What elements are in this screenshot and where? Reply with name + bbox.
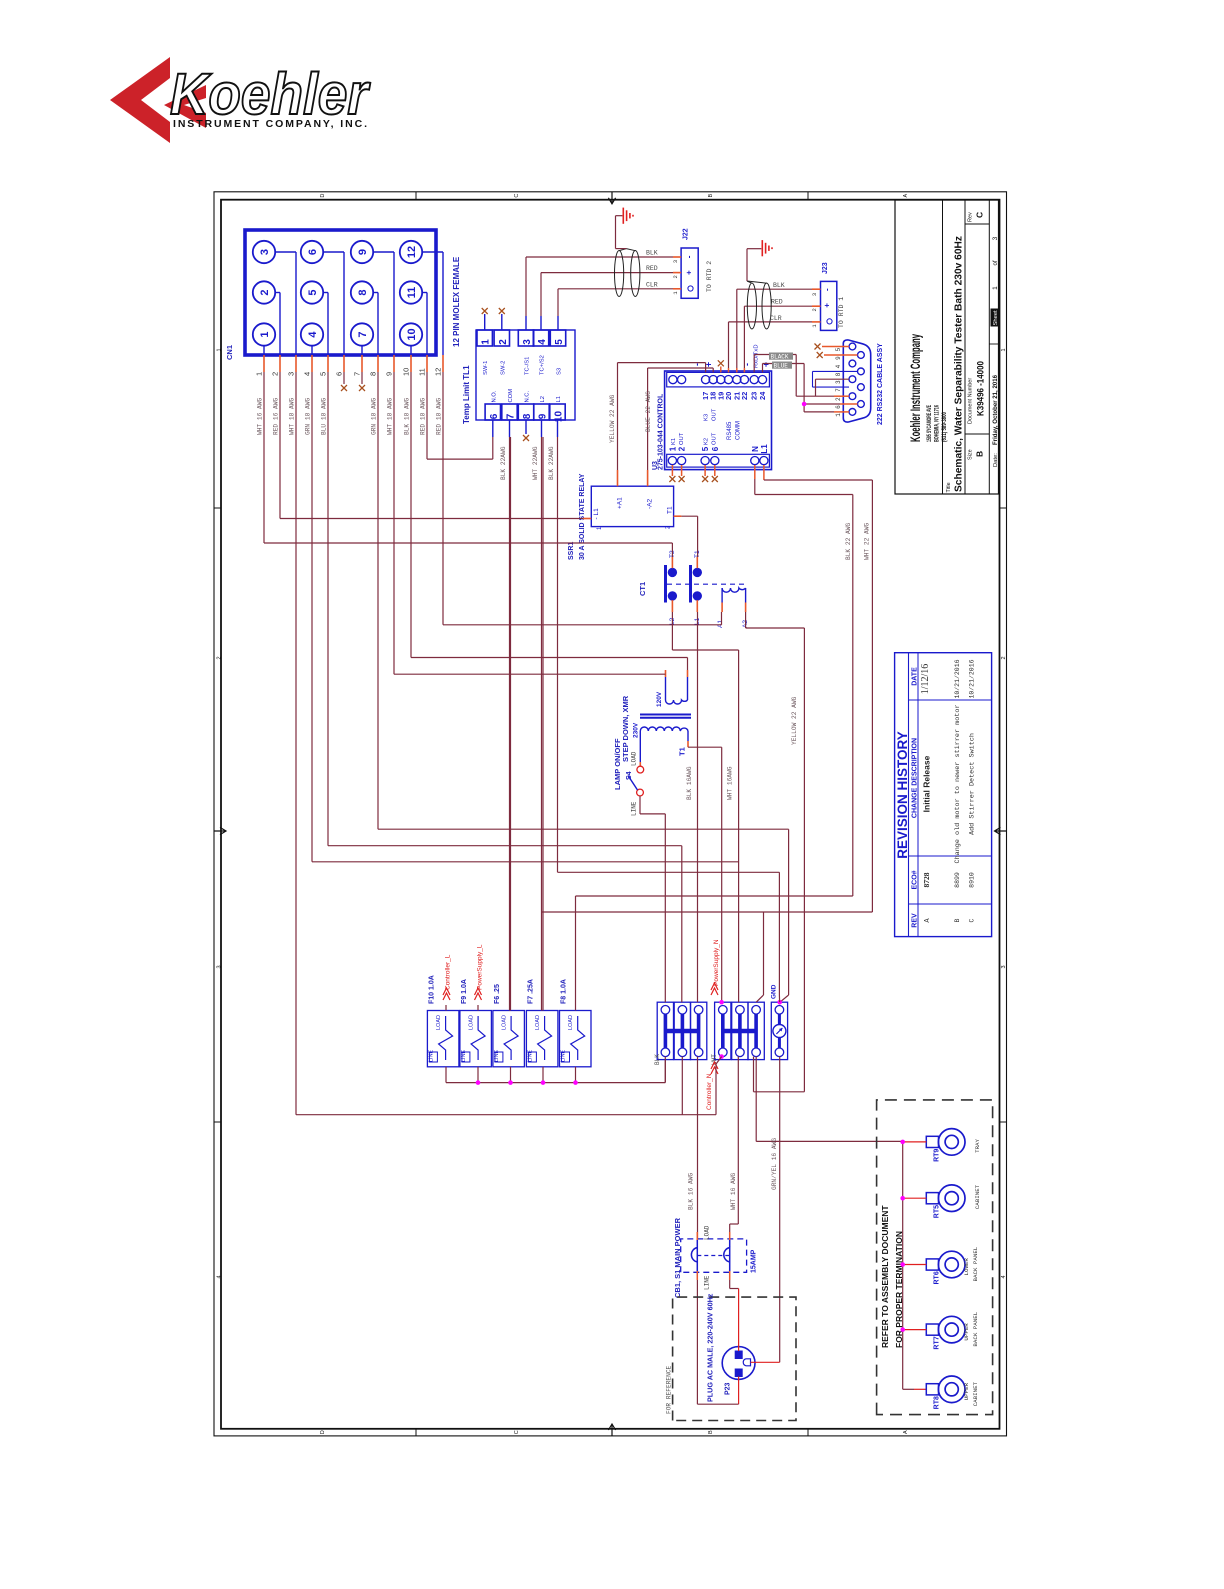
TL1 pin3 stub bbox=[525, 316, 527, 330]
GND terminal bottom long wire to plug ground bbox=[779, 1057, 781, 1363]
svg-text:10/21/2016: 10/21/2016 bbox=[954, 659, 961, 698]
svg-text:1/12/16: 1/12/16 bbox=[920, 664, 931, 695]
svg-text:YELLOW 22 AWG: YELLOW 22 AWG bbox=[609, 394, 616, 443]
svg-text:8: 8 bbox=[835, 372, 842, 376]
S4 LINE wire down bbox=[639, 796, 641, 814]
TL1 pin2 nc stub bbox=[501, 314, 503, 330]
fuse F10 outline bbox=[427, 1011, 459, 1067]
J22 cable shield ellipses bbox=[615, 251, 624, 297]
connector J22 outline bbox=[681, 248, 698, 298]
svg-text:C: C bbox=[975, 212, 985, 218]
svg-text:1: 1 bbox=[835, 413, 842, 417]
CN1 pin 5 circle bbox=[301, 281, 323, 303]
svg-text:RED: RED bbox=[771, 299, 783, 306]
U3 top pin 21 circle bbox=[733, 376, 741, 384]
svg-text:7: 7 bbox=[357, 331, 369, 337]
svg-text:CABINET: CABINET bbox=[972, 1381, 979, 1406]
svg-text:BACK PANEL: BACK PANEL bbox=[972, 1246, 979, 1281]
svg-text:F10 1.0A: F10 1.0A bbox=[428, 975, 435, 1004]
svg-text:12 PIN MOLEX FEMALE: 12 PIN MOLEX FEMALE bbox=[452, 256, 461, 347]
TL1 pin7 stub bbox=[509, 420, 511, 437]
J23 cable shield ellipses bbox=[747, 283, 756, 329]
svg-text:6: 6 bbox=[307, 249, 319, 255]
CN1 pin 3 circle bbox=[253, 241, 275, 263]
TL1 pin10 stub bbox=[557, 420, 559, 437]
svg-text:COM: COM bbox=[508, 389, 514, 403]
svg-text:C: C bbox=[514, 1430, 520, 1434]
U3 bottom pin 5 circle bbox=[701, 457, 709, 465]
wire CT1 A2 long wire down bbox=[745, 612, 747, 628]
U3 unused pin X marks bbox=[671, 465, 673, 476]
SSR1 +A1 stub bbox=[617, 470, 619, 486]
svg-text:Controller_N: Controller_N bbox=[706, 1073, 713, 1110]
DB9 pin9 nc stub bbox=[824, 354, 858, 356]
ring lug RT8 bbox=[938, 1376, 965, 1403]
svg-text:S3: S3 bbox=[557, 368, 563, 375]
wire U3 L1 right side down bbox=[763, 465, 765, 480]
DB9 loopback jumper blue bbox=[813, 370, 858, 372]
svg-text:10: 10 bbox=[554, 411, 565, 423]
wire CN1 pin9 to T1 primary left bbox=[393, 372, 395, 674]
TL1 pin 5 box bbox=[550, 330, 565, 346]
controller U3 outline bbox=[665, 371, 772, 470]
fuse bottom bus bbox=[445, 1067, 447, 1083]
CN1 pin 3 wire stub bbox=[295, 355, 297, 372]
CB1 breaker pole 1 bbox=[691, 1239, 697, 1272]
svg-text:BACK PANEL: BACK PANEL bbox=[972, 1311, 979, 1346]
svg-text:10: 10 bbox=[406, 328, 418, 340]
svg-text:12: 12 bbox=[434, 368, 443, 376]
svg-text:BLK 22AWG: BLK 22AWG bbox=[548, 446, 555, 480]
svg-text:F7 .25A: F7 .25A bbox=[527, 979, 534, 1004]
svg-text:9: 9 bbox=[538, 413, 549, 419]
terminal t2 bottom wire to neutral bus bbox=[681, 1057, 683, 1115]
svg-text:WHT 18 AWG: WHT 18 AWG bbox=[387, 398, 394, 435]
RS232 DB9 connector outline bbox=[843, 340, 870, 422]
svg-text:LOAD: LOAD bbox=[469, 1015, 475, 1030]
svg-text:YELLOW 22 AWG: YELLOW 22 AWG bbox=[791, 696, 798, 745]
RT9 wire bbox=[904, 1141, 926, 1143]
connector CN1 12-pin molex female outline bbox=[245, 230, 436, 355]
RT7 wire bbox=[904, 1329, 926, 1331]
DB9 loopback jumper maroon bbox=[816, 378, 850, 380]
svg-text:L2: L2 bbox=[540, 396, 546, 402]
J23 RED wire bbox=[744, 305, 812, 307]
svg-text:4: 4 bbox=[217, 1275, 223, 1278]
SSR1 L1 stub bbox=[583, 518, 591, 520]
T1 secondary right terminal bbox=[687, 731, 689, 741]
svg-text:3: 3 bbox=[259, 249, 271, 255]
wire pin8 GND vertical bbox=[788, 829, 790, 995]
DB9 pin 3 circle bbox=[849, 376, 856, 383]
U3 top pin 23 circle bbox=[750, 376, 758, 384]
svg-text:9: 9 bbox=[835, 356, 842, 360]
DB9 pin 8 circle bbox=[858, 368, 865, 375]
svg-text:RED: RED bbox=[646, 265, 658, 272]
svg-text:15AMP: 15AMP bbox=[751, 1249, 758, 1273]
svg-text:-: - bbox=[692, 363, 702, 366]
svg-text:-: - bbox=[742, 363, 752, 366]
junction dot fuse bus bbox=[476, 1080, 481, 1085]
svg-text:RED 18 AWG: RED 18 AWG bbox=[436, 398, 443, 435]
CN1 pin 7 wire stub bbox=[361, 355, 363, 372]
CN1 pin 1 wire stub bbox=[263, 355, 265, 372]
svg-text:2: 2 bbox=[271, 372, 280, 376]
TL1 pin 1 box bbox=[477, 330, 492, 346]
J23 CLR wire bbox=[729, 321, 813, 323]
J23 shield drain link bbox=[747, 281, 752, 283]
Koehler logo red chevron small bbox=[164, 85, 206, 128]
plug ground pin wire bbox=[749, 1361, 751, 1363]
svg-text:5: 5 bbox=[701, 446, 710, 451]
svg-text:A: A bbox=[903, 1430, 909, 1434]
plug bottom blade wire bbox=[738, 1377, 740, 1405]
TL1 pin9 stub bbox=[541, 420, 543, 437]
svg-text:Koehler Instrument Company: Koehler Instrument Company bbox=[907, 334, 923, 442]
svg-text:7: 7 bbox=[835, 388, 842, 392]
svg-text:CLR: CLR bbox=[770, 315, 782, 322]
svg-text:B: B bbox=[975, 451, 985, 457]
CT1 T2 stub bbox=[671, 557, 673, 568]
svg-text:6: 6 bbox=[489, 413, 500, 419]
svg-text:5: 5 bbox=[554, 339, 565, 345]
wire CN1 pin12 to CT1 coil A1 bbox=[442, 372, 444, 625]
svg-text:1: 1 bbox=[217, 348, 223, 351]
RT6 wire bbox=[904, 1264, 926, 1266]
svg-text:GRN/YEL 16 AWG: GRN/YEL 16 AWG bbox=[771, 1138, 778, 1190]
svg-text:- L1: - L1 bbox=[593, 508, 600, 520]
U3 top pin strip bbox=[667, 372, 770, 387]
fuse F8 element bbox=[571, 1016, 585, 1060]
CT1 L2 stub bbox=[671, 600, 673, 612]
svg-text:2: 2 bbox=[811, 308, 818, 311]
svg-text:GRN 18 AWG: GRN 18 AWG bbox=[305, 398, 312, 435]
svg-text:6: 6 bbox=[835, 405, 842, 409]
U3 pin24 wire to DB9 blue bbox=[762, 364, 764, 373]
terminal group BLK cross bars bbox=[665, 1029, 698, 1033]
svg-text:10: 10 bbox=[402, 368, 411, 376]
svg-text:230V: 230V bbox=[633, 722, 640, 738]
J22 shield drain link bbox=[619, 249, 626, 251]
fuse F10 element bbox=[439, 1016, 453, 1060]
svg-text:7: 7 bbox=[506, 413, 517, 419]
svg-text:BLK: BLK bbox=[654, 1054, 661, 1065]
S4 LOAD contact circle bbox=[637, 766, 644, 773]
svg-text:P23: P23 bbox=[725, 1382, 732, 1395]
svg-text:8: 8 bbox=[369, 372, 378, 376]
svg-text:F8 1.0A: F8 1.0A bbox=[561, 979, 568, 1004]
CN1 pin 8 internal wire bbox=[373, 292, 378, 294]
svg-text:LOAD: LOAD bbox=[568, 1015, 574, 1030]
circuit breaker CB1 dashed outline bbox=[681, 1239, 747, 1272]
SSR1 -A2 stub bbox=[647, 470, 649, 486]
wire CT1 L1 down to terminal t3 top bbox=[697, 612, 699, 1002]
svg-text:L1: L1 bbox=[556, 396, 562, 402]
svg-text:TO RTD 1: TO RTD 1 bbox=[838, 297, 845, 328]
CT1 A2 stub bbox=[745, 603, 747, 613]
svg-text:Title: Title bbox=[946, 482, 952, 492]
zone ticks and labels bbox=[214, 1121, 221, 1123]
svg-text:6: 6 bbox=[711, 446, 720, 451]
wire SSR1 T1 to CT1 T1 bbox=[697, 516, 699, 557]
CB1 pole2 wire down jog to plug bbox=[729, 1280, 731, 1289]
J22 RED wire bbox=[541, 272, 673, 274]
T1 primary terminals bbox=[665, 677, 667, 700]
wire CT1 A1 down to pin12 feed bbox=[721, 612, 723, 625]
svg-text:CT1: CT1 bbox=[638, 582, 647, 596]
svg-text:2: 2 bbox=[498, 339, 509, 345]
CT1 contact T1-L1 bar bbox=[689, 565, 692, 603]
ground symbol at J22 shield bbox=[622, 215, 623, 217]
svg-text:BLACK: BLACK bbox=[771, 354, 789, 361]
U3 bottom pin 1 circle bbox=[668, 457, 676, 465]
svg-text:5: 5 bbox=[319, 372, 328, 376]
svg-text:RED 18 AWG: RED 18 AWG bbox=[420, 398, 427, 435]
J23 BLK wire bbox=[737, 288, 812, 290]
terminal t5 bottom wire to CB1 right bbox=[737, 1057, 739, 1224]
terminal t1 bottom to fuse bus bbox=[664, 1057, 666, 1083]
TL1 pin 8 box bbox=[518, 404, 533, 420]
CN1 pin 6 circle bbox=[301, 241, 323, 263]
DB9 pin 2 circle bbox=[849, 393, 856, 400]
svg-text:3: 3 bbox=[217, 965, 223, 968]
CN1 pin 8 circle bbox=[351, 281, 373, 303]
svg-text:3: 3 bbox=[1001, 965, 1007, 968]
svg-text:6: 6 bbox=[335, 372, 344, 376]
CB1 wire orange highlights bbox=[696, 1232, 698, 1240]
CT1 T1 stub bbox=[696, 557, 698, 568]
junction dot fuse bus bbox=[541, 1080, 546, 1085]
svg-text:OUT: OUT bbox=[679, 432, 685, 445]
junction dot fuse bus bbox=[508, 1080, 513, 1085]
svg-text:-A2: -A2 bbox=[647, 499, 654, 510]
svg-text:30 A SOLID STATE RELAY: 30 A SOLID STATE RELAY bbox=[579, 473, 586, 560]
svg-text:OUT: OUT bbox=[712, 408, 718, 421]
svg-text:3: 3 bbox=[672, 260, 679, 263]
wire U3 N to fuse F8 bbox=[754, 465, 756, 479]
svg-text:1: 1 bbox=[255, 372, 264, 376]
ring lug RT9 bbox=[938, 1129, 965, 1156]
DB9 jumper from junction to pin6 bbox=[804, 403, 840, 405]
CN1 pin 9 circle bbox=[351, 241, 373, 263]
DB9 pin 6 circle bbox=[858, 401, 865, 408]
svg-text:STEP DOWN, XMR: STEP DOWN, XMR bbox=[621, 695, 630, 762]
CN1 pin 4 internal wire bbox=[311, 346, 313, 355]
DB9 pin 9 circle bbox=[858, 352, 865, 359]
CN1 pin 6 internal wire bbox=[323, 251, 344, 253]
solid state relay SSR1 outline bbox=[591, 486, 673, 526]
svg-text:3: 3 bbox=[811, 293, 818, 296]
TL1 pin8 nc stub bbox=[525, 420, 527, 434]
T1 secondary left terminal to S4 bbox=[639, 731, 641, 762]
fuse F8 outline bbox=[560, 1011, 592, 1067]
svg-text:LOAD: LOAD bbox=[436, 1015, 442, 1030]
svg-text:Add Stirrer Detect Switch: Add Stirrer Detect Switch bbox=[969, 733, 977, 835]
svg-text:9: 9 bbox=[385, 372, 394, 376]
svg-text:Schematic, Water Separability: Schematic, Water Separability Tester Bat… bbox=[953, 236, 965, 492]
svg-text:J22: J22 bbox=[683, 228, 690, 240]
wire T1 primary right from pin10 bbox=[687, 658, 689, 671]
svg-text:Initial Release: Initial Release bbox=[922, 755, 932, 812]
T1 primary 120V winding bbox=[666, 700, 688, 704]
svg-text:TC-/S1: TC-/S1 bbox=[525, 357, 531, 375]
svg-text:BLK: BLK bbox=[646, 250, 658, 257]
svg-text:22: 22 bbox=[740, 392, 749, 400]
TL1 pin 2 box bbox=[494, 330, 509, 346]
U3 top pin 17 circle bbox=[702, 376, 710, 384]
svg-text:A1: A1 bbox=[717, 620, 724, 628]
svg-text:3: 3 bbox=[522, 339, 533, 345]
svg-text:RT5: RT5 bbox=[934, 1205, 941, 1218]
DB9 pin 1 circle bbox=[849, 409, 856, 416]
svg-text:SSR1: SSR1 bbox=[568, 542, 575, 560]
svg-text:5: 5 bbox=[307, 289, 319, 295]
RS232 wire label BLUE bbox=[772, 362, 792, 369]
CT1 coil bbox=[722, 588, 746, 592]
CN1 pin 11 wire stub bbox=[426, 355, 428, 372]
svg-text:8899: 8899 bbox=[954, 872, 961, 888]
svg-text:LINE: LINE bbox=[704, 1275, 711, 1290]
svg-text:K3: K3 bbox=[704, 414, 710, 421]
CN1 pin 4 wire stub bbox=[311, 355, 313, 372]
junction dot RT7 bbox=[900, 1327, 905, 1332]
wire CN1 pin2 to SSR1 L1 bbox=[279, 372, 281, 519]
svg-text:C: C bbox=[969, 918, 976, 922]
CT1 contact T1 dot bbox=[693, 568, 701, 576]
svg-text:WHT 16 AWG: WHT 16 AWG bbox=[730, 1173, 737, 1210]
J23 shield drain wire bbox=[746, 249, 748, 281]
CN1 pin 9 wire stub bbox=[393, 355, 395, 372]
S4 lever bbox=[628, 776, 638, 791]
title block dividers bbox=[942, 200, 944, 494]
J22 shield drain wire bbox=[616, 248, 627, 250]
TL1 pin1 nc stub bbox=[484, 314, 486, 330]
svg-text:Friday, October 21, 2016: Friday, October 21, 2016 bbox=[992, 375, 999, 445]
ring lug RT7 bbox=[938, 1316, 965, 1343]
temp limit TL1 outline bbox=[476, 330, 575, 420]
svg-text:RT9: RT9 bbox=[934, 1149, 941, 1162]
T1 secondary 230V winding bbox=[640, 727, 688, 731]
CN1 pin 4 circle bbox=[301, 323, 323, 345]
U3 pin19 no-connect X bbox=[720, 367, 722, 373]
CT1 contact L2 dot bbox=[668, 592, 676, 600]
svg-text:K2: K2 bbox=[704, 438, 710, 445]
svg-text:F6 .25: F6 .25 bbox=[494, 984, 501, 1004]
TL1 pin6 stub bbox=[492, 420, 494, 437]
CN1 pin 3 internal wire bbox=[275, 251, 296, 253]
CN1 pin 11 internal wire bbox=[422, 292, 427, 294]
CB1 pole linkage dashed bbox=[697, 1255, 729, 1257]
net label Controller_L bbox=[443, 988, 450, 1000]
svg-text:LINE: LINE bbox=[631, 801, 638, 816]
RT ground bus bbox=[902, 1142, 904, 1389]
PowerSupply_N junction dot bbox=[719, 1000, 724, 1005]
Koehler logo red chevron large bbox=[110, 57, 170, 143]
svg-text:BLK 16 AWG: BLK 16 AWG bbox=[688, 1173, 695, 1210]
svg-text:B: B bbox=[708, 1430, 714, 1434]
U3 bottom pin 6 circle bbox=[711, 457, 719, 465]
svg-text:Date:: Date: bbox=[993, 453, 999, 467]
svg-text:C: C bbox=[514, 194, 520, 198]
svg-text:T1: T1 bbox=[678, 747, 687, 756]
svg-text:LOWER: LOWER bbox=[963, 1258, 970, 1276]
svg-text:1: 1 bbox=[668, 446, 677, 451]
CN1 pin 10 internal wire bbox=[410, 346, 412, 355]
fuse F7 outline bbox=[526, 1011, 558, 1067]
svg-text:Size: Size bbox=[968, 449, 974, 460]
CN1 pin 5 internal wire bbox=[323, 292, 328, 294]
CT1 contact T2 dot bbox=[668, 568, 676, 576]
U3 pin23 wire to DB9 black bbox=[753, 355, 755, 373]
TL1 pin 10 box bbox=[550, 404, 565, 420]
svg-text:-: - bbox=[685, 255, 694, 258]
Controller_N wire diagonal bbox=[716, 1057, 722, 1064]
wire CN1 pin10 to T1 primary right bbox=[410, 372, 412, 658]
U3 bottom pin strip bbox=[667, 454, 770, 467]
svg-text:2: 2 bbox=[259, 289, 271, 295]
CN1 pin 2 circle bbox=[253, 281, 275, 303]
U3 bottom pin N circle bbox=[751, 457, 759, 465]
U3 top pin aux circle bbox=[669, 376, 677, 384]
S4 LINE contact circle bbox=[637, 789, 644, 796]
svg-text:COMM: COMM bbox=[736, 421, 742, 440]
svg-text:11: 11 bbox=[406, 287, 418, 299]
CT1 linkage dashed line bbox=[667, 583, 747, 585]
svg-text:WHT 22AWG: WHT 22AWG bbox=[532, 446, 539, 480]
svg-text:+A1: +A1 bbox=[617, 497, 624, 509]
CT1 contact L1 dot bbox=[693, 592, 701, 600]
svg-text:8910: 8910 bbox=[969, 872, 976, 888]
ring lug RT5 bbox=[938, 1185, 965, 1212]
T1 core lines bbox=[640, 714, 691, 716]
svg-text:BLK: BLK bbox=[773, 282, 785, 289]
svg-text:BLU 18 AWG: BLU 18 AWG bbox=[321, 398, 328, 435]
wire t5 jog into CB1 pole2 bbox=[730, 1223, 739, 1225]
svg-text:BLK 18 AWG: BLK 18 AWG bbox=[404, 398, 411, 435]
svg-text:DATE: DATE bbox=[912, 667, 919, 686]
junction dot RT6 bbox=[900, 1262, 905, 1267]
RT5 wire bbox=[904, 1197, 926, 1199]
svg-text:1: 1 bbox=[992, 286, 999, 290]
TL1 pin5 stub bbox=[557, 316, 559, 330]
svg-text:LAMP ON/OFF: LAMP ON/OFF bbox=[613, 738, 622, 790]
CT1 L1 stub bbox=[696, 600, 698, 612]
CN1 pin 10 wire stub bbox=[410, 355, 412, 372]
svg-text:8: 8 bbox=[522, 413, 533, 419]
junction dot RT9 bbox=[900, 1140, 905, 1145]
svg-text:J23: J23 bbox=[822, 262, 829, 274]
terminal block GND bbox=[771, 1002, 787, 1059]
CN1 pin 1 circle bbox=[253, 323, 275, 345]
svg-text:K1: K1 bbox=[671, 438, 677, 445]
U3 top pin 22 circle bbox=[740, 376, 748, 384]
svg-text:Rev: Rev bbox=[968, 212, 974, 222]
svg-text:D: D bbox=[320, 1430, 326, 1434]
terminal block group WHT bbox=[715, 1002, 731, 1059]
CT1 contact T2-L2 bar bbox=[664, 565, 667, 603]
svg-text:T1: T1 bbox=[667, 506, 674, 514]
SSR1 T1 stub bbox=[674, 515, 682, 517]
svg-text:-: - bbox=[823, 288, 832, 291]
svg-text:2: 2 bbox=[217, 656, 223, 659]
CT1 coil terminals bbox=[721, 588, 723, 603]
fuse F8 line-end arrow box bbox=[562, 1052, 570, 1062]
U3 top pin aux circle bbox=[678, 376, 686, 384]
DB9 pin 4 circle bbox=[849, 360, 856, 367]
wire S4 LINE to terminal t1 top bbox=[640, 813, 665, 815]
fuse top feed wires bbox=[445, 1005, 447, 1011]
svg-text:OUT: OUT bbox=[712, 432, 718, 445]
